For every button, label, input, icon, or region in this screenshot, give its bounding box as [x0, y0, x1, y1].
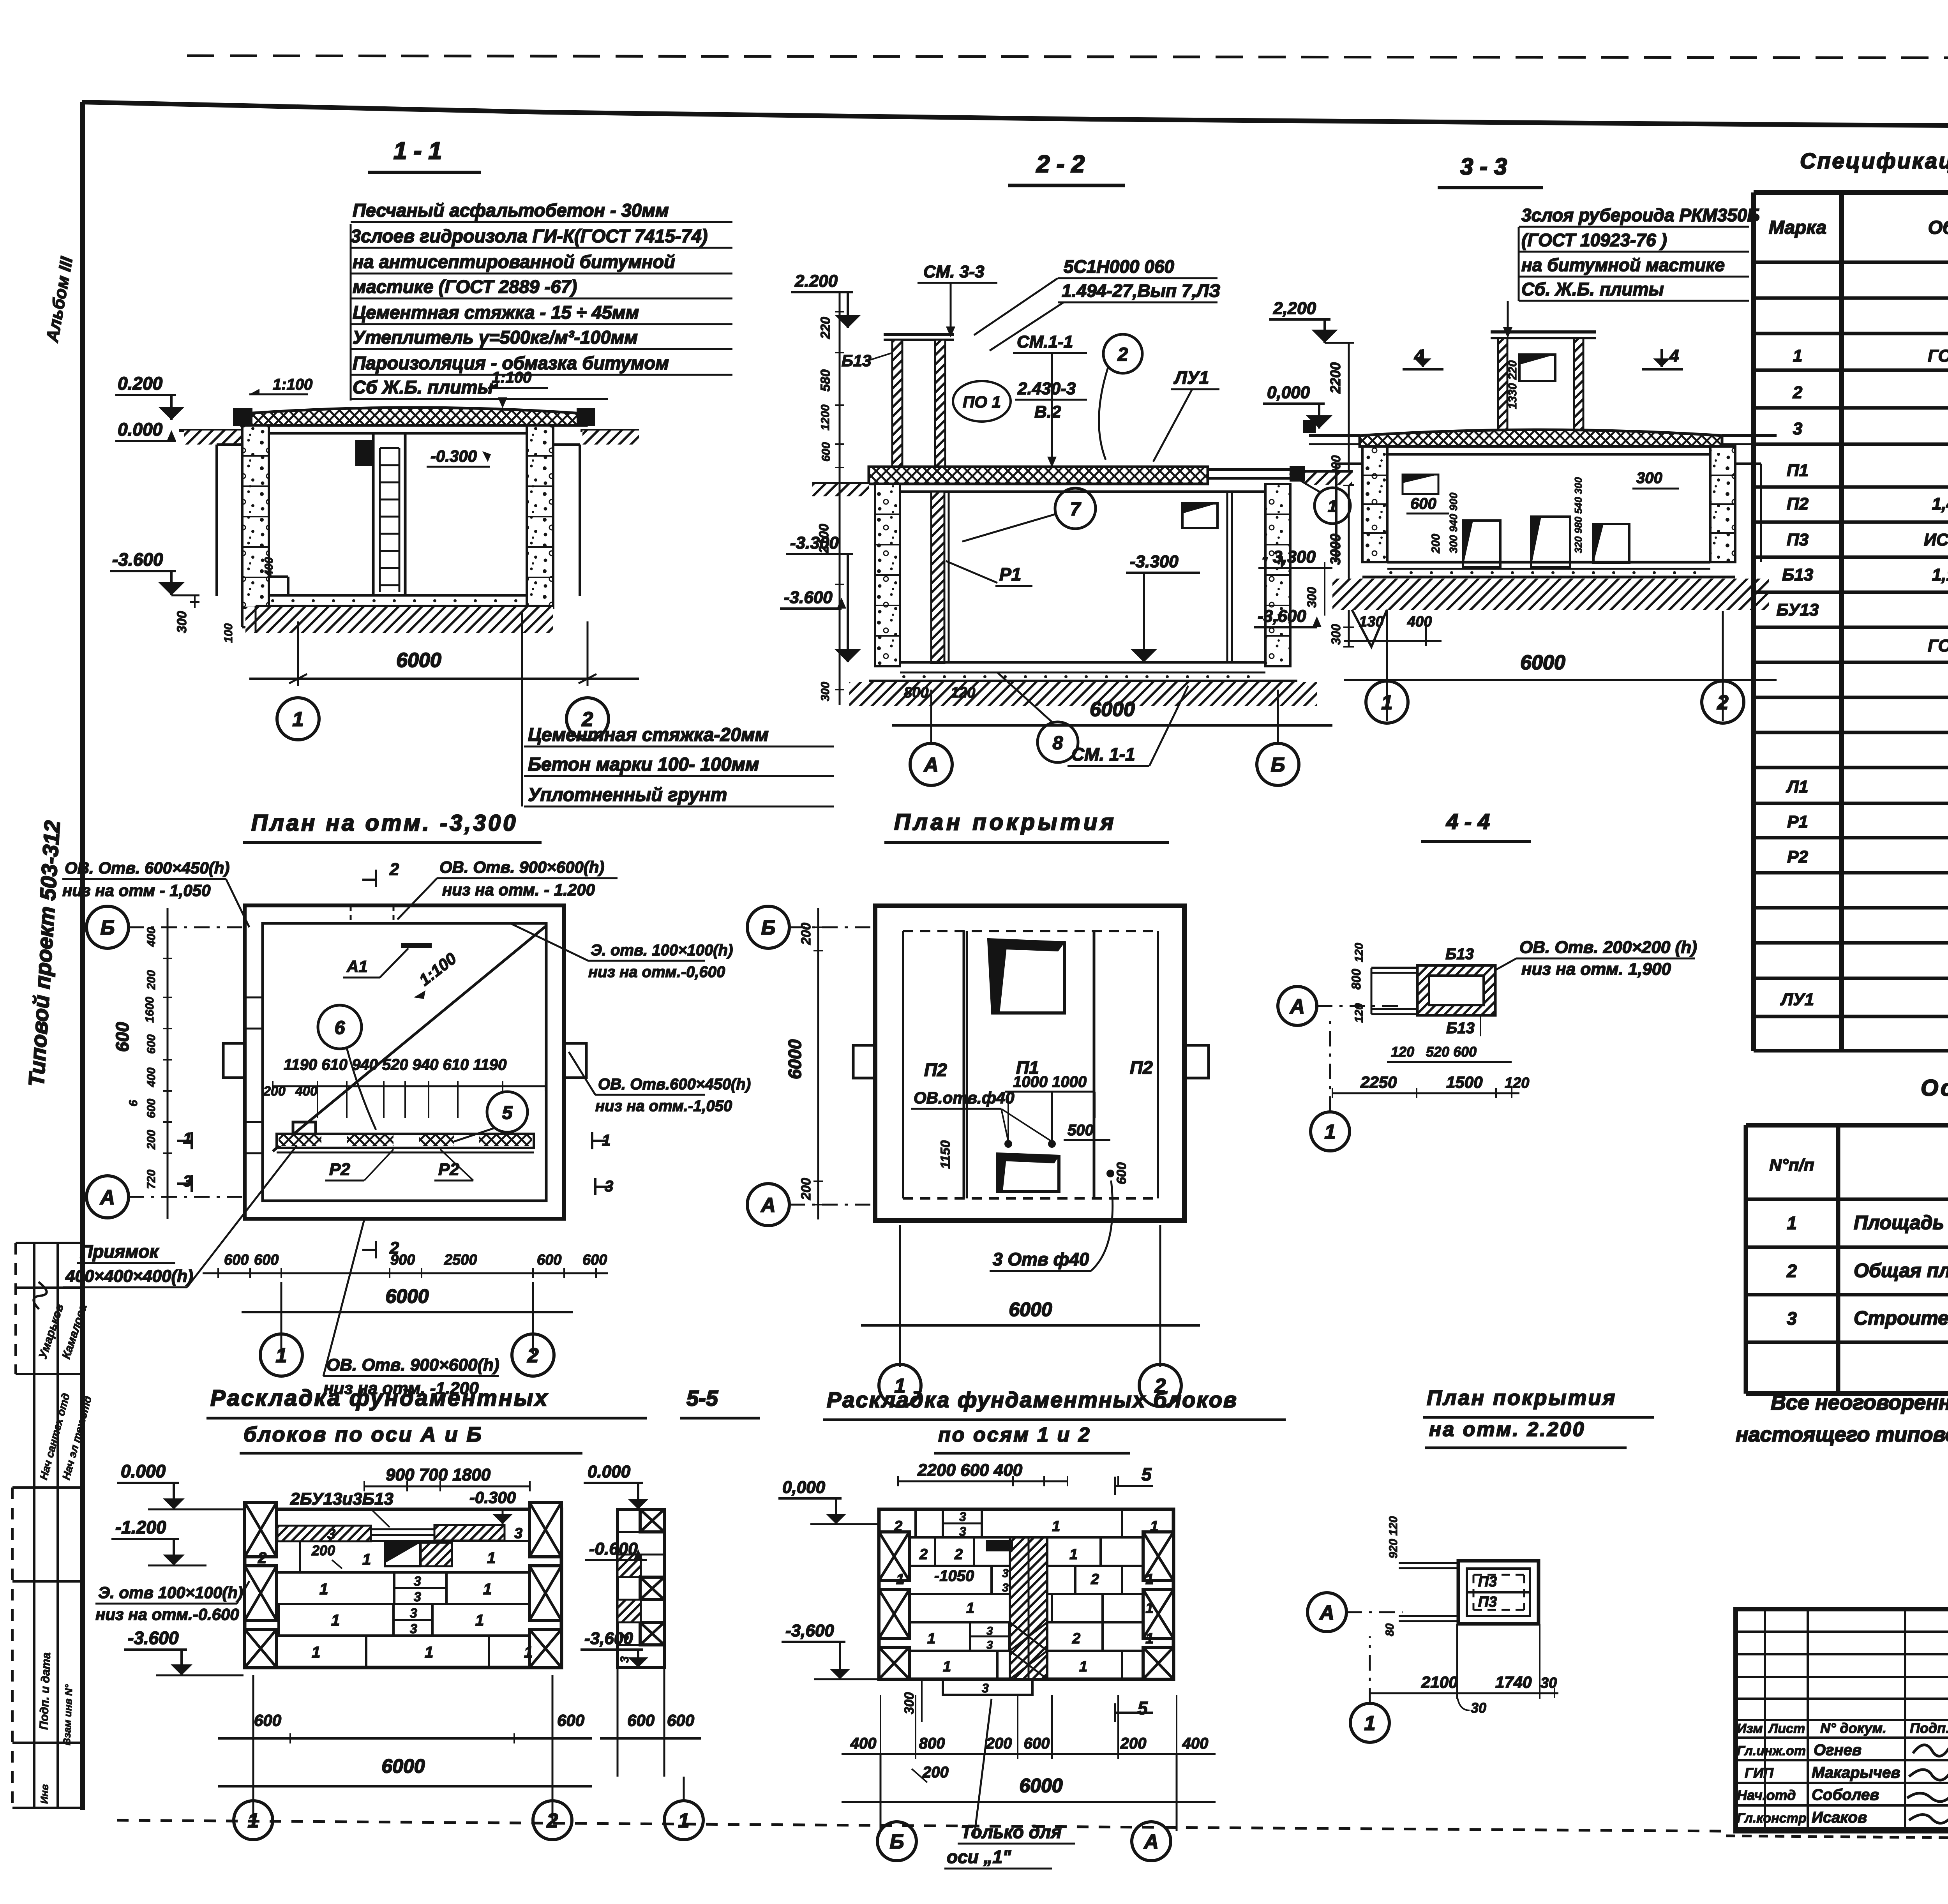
svg-text:600: 600 [1114, 1162, 1129, 1184]
svg-text:План покрытия: План покрытия [894, 810, 1117, 835]
svg-text:3: 3 [327, 1526, 335, 1542]
svg-text:6000: 6000 [1009, 1299, 1052, 1320]
raskladka 12 X marks in shaft [1010, 1622, 1047, 1651]
1-1 ground hatch below floor [245, 607, 553, 633]
svg-text:500: 500 [1068, 1122, 1094, 1139]
4-4 duct box [1417, 965, 1495, 1015]
4-4 axis 1 [1311, 1112, 1350, 1151]
leader from note to roof [502, 401, 504, 405]
svg-text:920 120: 920 120 [1387, 1516, 1400, 1558]
svg-text:200: 200 [145, 970, 158, 990]
svg-text:-3.600: -3.600 [784, 588, 833, 607]
plan 2.200 left channel lines [1399, 1562, 1458, 1564]
svg-text:520 600: 520 600 [1426, 1044, 1477, 1060]
plan -3.300 callout 5 [487, 1092, 528, 1132]
svg-text:Обозначение: Обозначение [1928, 217, 1948, 238]
svg-text:0.200: 0.200 [118, 373, 163, 394]
svg-text:3: 3 [414, 1574, 421, 1589]
svg-text:1330 220: 1330 220 [1506, 360, 1519, 409]
svg-text:Цементная стяжка-20мм: Цементная стяжка-20мм [528, 725, 769, 745]
svg-text:5: 5 [502, 1103, 513, 1123]
svg-text:Бетон марки 100- 100мм: Бетон марки 100- 100мм [528, 754, 759, 775]
svg-text:1: 1 [1325, 1121, 1336, 1143]
svg-text:130: 130 [1359, 614, 1383, 630]
svg-text:Огнев: Огнев [1814, 1742, 1862, 1759]
svg-text:2: 2 [1090, 1571, 1099, 1588]
svg-text:-3,600: -3,600 [785, 1621, 834, 1640]
svg-text:оси „1": оси „1" [947, 1847, 1011, 1867]
svg-text:2500: 2500 [444, 1252, 477, 1268]
svg-text:100: 100 [222, 623, 235, 643]
plan -3.300 frame band Р2 [277, 1134, 534, 1148]
svg-text:6000: 6000 [396, 649, 441, 672]
svg-text:низ на отм. 1,900: низ на отм. 1,900 [1521, 960, 1671, 979]
svg-text:2: 2 [1786, 1261, 1797, 1281]
svg-text:Сб Ж.Б. плиты: Сб Ж.Б. плиты [353, 377, 493, 397]
svg-text:Соболев: Соболев [1812, 1786, 1879, 1803]
1-1 ground lines left/right [179, 429, 249, 432]
axis circle 1 (5-5) [664, 1801, 703, 1840]
svg-text:Б13: Б13 [1445, 946, 1474, 963]
axis circle 1 (section 1-1) [277, 698, 319, 740]
svg-text:1: 1 [293, 708, 304, 731]
axis circle 1 (plan) [260, 1334, 302, 1376]
2-2 window opening [1182, 503, 1217, 528]
plan 2.200 axis А [1307, 1593, 1346, 1632]
1-1 pit step left [269, 575, 288, 578]
svg-text:на антисептированной битумной: на антисептированной битумной [353, 251, 675, 272]
svg-text:-0.300: -0.300 [469, 1488, 516, 1507]
svg-text:600: 600 [145, 1099, 158, 1118]
2-2 callout circle 1 right [1315, 488, 1350, 524]
raskladka 12 wall rows [879, 1509, 1173, 1679]
svg-text:1: 1 [183, 1130, 192, 1147]
3-3 chimney [1491, 330, 1596, 334]
raskladka 12 row1 blocks [934, 1537, 936, 1566]
svg-text:Макарычев: Макарычев [1812, 1764, 1900, 1781]
svg-text:600: 600 [145, 1034, 158, 1054]
svg-text:2100: 2100 [817, 524, 831, 554]
svg-text:1: 1 [487, 1549, 496, 1567]
1-1 interior room [269, 432, 527, 435]
axis circle А (raskladka 12) [1132, 1822, 1171, 1861]
svg-text:1190 610 940 520 940 610 1: 1190 610 940 520 940 610 1190 [284, 1056, 506, 1073]
3-3 chimney window [1519, 355, 1555, 381]
svg-text:1740: 1740 [1495, 1673, 1532, 1691]
axis circle 2 (section 1-1) [566, 698, 609, 740]
raskladka AB corner X blocks [245, 1502, 277, 1557]
svg-text:1500: 1500 [1446, 1073, 1482, 1091]
axis circle 1 (raskladka AB) [234, 1801, 273, 1840]
2-2 label ПО1 [953, 381, 1011, 422]
svg-text:-3,600: -3,600 [584, 1629, 633, 1648]
2-2 roof slab [869, 467, 1208, 484]
svg-text:блоков по оси А и Б: блоков по оси А и Б [243, 1423, 483, 1446]
svg-text:2БУ13и3Б13: 2БУ13и3Б13 [290, 1489, 393, 1509]
svg-text:0.000: 0.000 [121, 1461, 166, 1481]
svg-text:по осям 1 и 2: по осям 1 и 2 [938, 1424, 1091, 1446]
svg-text:400: 400 [145, 1068, 158, 1087]
svg-text:Р2: Р2 [329, 1160, 350, 1179]
raskladka 12 row5 blocks [996, 1651, 999, 1679]
svg-text:настоящего типового проекта: настоящего типового проекта. [1736, 1423, 1948, 1446]
axis circle 1 (pokr) [879, 1364, 921, 1406]
svg-text:Все неоговоренные узлы смо: Все неоговоренные узлы смотреть в альбом… [1771, 1391, 1948, 1414]
svg-text:Сб. Ж.Б. плиты: Сб. Ж.Б. плиты [1521, 279, 1664, 299]
svg-text:800: 800 [904, 685, 928, 701]
svg-text:3: 3 [986, 1625, 993, 1638]
svg-text:120: 120 [1353, 1003, 1366, 1023]
svg-text:2,200: 2,200 [1273, 299, 1316, 318]
svg-text:А: А [760, 1194, 776, 1217]
svg-text:600: 600 [112, 1022, 132, 1052]
svg-text:5: 5 [1142, 1464, 1152, 1484]
svg-text:600: 600 [820, 442, 833, 462]
svg-text:Б: Б [1271, 754, 1285, 776]
3-3 left wing seal [1303, 420, 1316, 433]
plan -3.300 left dim chain [167, 908, 169, 1219]
svg-text:2: 2 [547, 1810, 558, 1832]
svg-text:200: 200 [263, 1084, 286, 1099]
svg-text:4 - 4: 4 - 4 [1446, 809, 1490, 834]
svg-text:А: А [1319, 1602, 1334, 1624]
svg-text:ГИП: ГИП [1745, 1765, 1774, 1781]
svg-text:1: 1 [1382, 692, 1393, 714]
plan -3.300 left duct protrusion [223, 1043, 245, 1078]
svg-text:1: 1 [362, 1551, 371, 1568]
3-3 left wall [1362, 446, 1387, 562]
2-2 ground hatch right of roof [1305, 471, 1352, 485]
svg-text:ЛУ1: ЛУ1 [1780, 990, 1814, 1009]
svg-text:6000: 6000 [385, 1285, 429, 1307]
2-2 interior left hatched partition [931, 492, 944, 663]
plan pokrytiya inner slab edges [902, 931, 904, 1198]
3-3 interior ceiling [1387, 453, 1710, 456]
svg-text:1000 1000: 1000 1000 [1013, 1073, 1087, 1091]
svg-text:400: 400 [1407, 614, 1432, 630]
svg-text:А1: А1 [346, 957, 368, 976]
svg-text:ОВ. Отв. 600×450(h): ОВ. Отв. 600×450(h) [65, 859, 229, 877]
svg-text:низ на отм.-1,050: низ на отм.-1,050 [595, 1098, 732, 1115]
svg-text:6: 6 [335, 1018, 345, 1038]
top scan noise line [187, 56, 1948, 58]
svg-text:Песчаный асфальтобетон - 30мм: Песчаный асфальтобетон - 30мм [353, 200, 669, 221]
svg-text:ПО 1: ПО 1 [963, 393, 1001, 411]
svg-text:30: 30 [1471, 1700, 1486, 1716]
svg-text:0,000: 0,000 [1267, 383, 1310, 402]
svg-text:3: 3 [1002, 1567, 1009, 1580]
svg-text:Спецификация изделий на одн: Спецификация изделий на одну камеру [1800, 148, 1948, 173]
3-3 ground hatch below [1332, 579, 1769, 610]
svg-text:300: 300 [1329, 624, 1343, 645]
raskladka 12 row4 blocks [969, 1622, 971, 1651]
title block bottom noise [1726, 1836, 1948, 1841]
svg-text:ИС-01-04 Вып.2: ИС-01-04 Вып.2 [1924, 530, 1948, 549]
svg-text:580: 580 [818, 369, 833, 392]
plan -3.300 bottom dim chain [203, 1272, 608, 1274]
svg-text:3слоя рубероида РКМ350Б: 3слоя рубероида РКМ350Б [1521, 205, 1760, 225]
svg-text:600: 600 [582, 1252, 607, 1268]
axis circle Б (2-2) [1257, 743, 1299, 785]
svg-text:1: 1 [483, 1581, 492, 1598]
svg-text:СМ.1-1: СМ.1-1 [1017, 332, 1073, 351]
svg-text:В.2: В.2 [1034, 402, 1061, 422]
title block left grid horizontals [1736, 1630, 1948, 1633]
svg-text:2: 2 [919, 1546, 928, 1563]
svg-text:200: 200 [799, 1178, 813, 1200]
svg-text:ГОСТ 13579-78: ГОСТ 13579-78 [1928, 346, 1948, 365]
svg-text:2.200: 2.200 [794, 272, 838, 291]
svg-text:1: 1 [966, 1600, 974, 1616]
plan pokrytiya axis А [747, 1184, 789, 1226]
svg-text:-3.600: -3.600 [112, 549, 163, 570]
svg-text:Гл.констр: Гл.констр [1737, 1811, 1807, 1826]
svg-text:ОВ.отв.ф40: ОВ.отв.ф40 [914, 1089, 1015, 1107]
svg-text:Строительный объем: Строительный объем [1854, 1307, 1948, 1329]
svg-text:Р1: Р1 [999, 564, 1021, 584]
raskladka AB row0 hatched lintel band [277, 1526, 371, 1541]
svg-text:Уплотненный грунт: Уплотненный грунт [528, 785, 727, 805]
svg-text:Инв: Инв [38, 1784, 51, 1804]
svg-text:ГОСТ 6665 - 74: ГОСТ 6665 - 74 [1928, 636, 1948, 655]
2-2 interior ceiling line [900, 491, 1265, 493]
svg-text:1: 1 [1052, 1518, 1060, 1535]
svg-text:120: 120 [951, 685, 975, 701]
plan -3.300 callout 6 [318, 1005, 362, 1049]
svg-text:3: 3 [959, 1510, 966, 1524]
svg-text:ЛУ1: ЛУ1 [1173, 367, 1209, 388]
svg-text:220: 220 [818, 317, 833, 339]
3-3 interior window rects [1463, 521, 1500, 567]
svg-text:900 700 1800: 900 700 1800 [386, 1465, 491, 1484]
axis circle 2 (pokr) [1139, 1364, 1181, 1406]
plan -3.300 dim 6000 [281, 1282, 282, 1354]
svg-text:600: 600 [537, 1252, 561, 1268]
svg-text:120: 120 [1353, 943, 1366, 962]
svg-text:П2: П2 [1130, 1057, 1153, 1078]
svg-text:(ГОСТ 10923-76 ): (ГОСТ 10923-76 ) [1521, 230, 1667, 250]
svg-text:2: 2 [1072, 1630, 1080, 1647]
svg-text:3: 3 [1793, 419, 1802, 438]
svg-text:1,139-1 Вып.1: 1,139-1 Вып.1 [1932, 565, 1948, 584]
svg-text:400: 400 [145, 927, 158, 947]
4-4 left channel lines [1371, 967, 1417, 969]
svg-text:4: 4 [1669, 346, 1679, 365]
3-3 right wall [1710, 446, 1735, 562]
svg-text:2: 2 [954, 1546, 963, 1563]
svg-text:Общая площадь: Общая площадь [1854, 1260, 1948, 1281]
svg-text:-3.300: -3.300 [1130, 552, 1179, 571]
svg-text:1: 1 [276, 1345, 287, 1367]
svg-text:А: А [1143, 1831, 1159, 1853]
svg-text:200: 200 [986, 1735, 1012, 1752]
svg-text:900: 900 [390, 1252, 415, 1268]
svg-text:1: 1 [425, 1644, 433, 1661]
svg-text:А: А [99, 1186, 115, 1209]
axis circle 2 (plan) [512, 1334, 554, 1376]
3-3 roof slab [1360, 430, 1722, 446]
svg-text:3 - 3: 3 - 3 [1460, 154, 1507, 180]
svg-text:1: 1 [1145, 1600, 1154, 1616]
svg-text:П3: П3 [1478, 1594, 1497, 1610]
svg-text:1: 1 [524, 1644, 533, 1661]
svg-text:3: 3 [1002, 1581, 1009, 1594]
svg-text:3: 3 [183, 1173, 192, 1190]
dim chain between 2-2 and 3-3 [1348, 343, 1350, 647]
svg-text:2: 2 [1117, 344, 1128, 365]
plan -3.300 wall opening dashes top [350, 905, 352, 923]
svg-text:Цементная стяжка - 15 ÷ 45: Цементная стяжка - 15 ÷ 45мм [353, 302, 639, 323]
svg-text:Э. отв 100×100(h): Э. отв 100×100(h) [98, 1583, 243, 1602]
svg-text:БУ13: БУ13 [1777, 600, 1819, 619]
svg-text:300 940 900: 300 940 900 [1447, 492, 1459, 553]
svg-text:Б13: Б13 [1446, 1020, 1475, 1037]
axis circle 2 (3-3) [1702, 681, 1744, 723]
svg-text:Нач.отд: Нач.отд [1737, 1787, 1796, 1803]
svg-text:Изм: Изм [1737, 1721, 1763, 1736]
svg-text:П3: П3 [1787, 530, 1809, 549]
plan -3.300 pit square [293, 1122, 316, 1145]
svg-text:600: 600 [1024, 1735, 1050, 1752]
axis circle Б (raskladka 12) [877, 1822, 916, 1861]
plan -3.300 outer walls [245, 905, 564, 1219]
2-2 callout circle 8 [1038, 722, 1078, 762]
raskladka AB wall rows [245, 1509, 561, 1668]
3-3 bottom dim 6000 [1386, 646, 1388, 721]
svg-text:120: 120 [1505, 1075, 1529, 1091]
svg-text:120: 120 [1391, 1044, 1414, 1060]
plan 2.200 axis 1 [1350, 1703, 1389, 1742]
svg-text:Б: Б [101, 917, 115, 939]
svg-text:низ на отм. - 1.200: низ на отм. - 1.200 [442, 881, 595, 899]
svg-text:400: 400 [295, 1084, 318, 1099]
svg-text:2: 2 [258, 1549, 266, 1567]
svg-text:600: 600 [224, 1252, 249, 1268]
svg-text:П3: П3 [1478, 1574, 1497, 1590]
svg-text:1: 1 [896, 1571, 904, 1588]
svg-text:6000: 6000 [381, 1755, 425, 1777]
svg-text:1: 1 [1079, 1659, 1087, 1675]
svg-text:-0.300: -0.300 [431, 447, 477, 465]
raskladka AB row2 blocks [393, 1572, 395, 1604]
svg-text:1 - 1: 1 - 1 [393, 138, 442, 164]
raskladka AB row4 blocks [365, 1636, 367, 1668]
svg-text:3: 3 [959, 1525, 966, 1539]
svg-text:План на отм. -3,300: План на отм. -3,300 [251, 810, 518, 836]
2-2 ground hatch below [849, 682, 1317, 706]
svg-text:Л1: Л1 [1786, 777, 1809, 796]
1-1 outer foundation edges [215, 445, 218, 596]
svg-text:3: 3 [982, 1681, 989, 1695]
3-3 outer foundation edges [1335, 464, 1337, 562]
svg-text:-3.300: -3.300 [790, 533, 839, 552]
plan pokrytiya axis Б [747, 906, 789, 948]
1-1 bottom dim 6000 [297, 621, 299, 686]
svg-text:СМ. 1-1: СМ. 1-1 [1071, 744, 1135, 764]
svg-text:ОВ. Отв.600×450(h): ОВ. Отв.600×450(h) [598, 1076, 751, 1093]
1-1 right wall [527, 425, 553, 608]
svg-text:N° докум.: N° докум. [1820, 1720, 1886, 1736]
svg-text:- 3,300: - 3,300 [1262, 547, 1316, 566]
svg-text:5С1Н000 060: 5С1Н000 060 [1064, 256, 1174, 277]
svg-text:Основные показатели: Основные показатели [1921, 1075, 1948, 1101]
svg-text:300: 300 [1305, 587, 1319, 608]
svg-text:Р2: Р2 [1787, 847, 1808, 866]
svg-text:Исаков: Исаков [1812, 1809, 1867, 1826]
plan -3.300 axis Б [86, 906, 129, 948]
svg-text:0.000: 0.000 [118, 419, 163, 439]
svg-text:1: 1 [1150, 1518, 1158, 1535]
plan 2.200 hatch box [1458, 1561, 1539, 1624]
svg-text:3слоев гидроизола ГИ-К(ГОСТ 7: 3слоев гидроизола ГИ-К(ГОСТ 7415-74) [351, 226, 708, 246]
2-2 callout circle 2 [1103, 334, 1142, 373]
svg-text:800: 800 [919, 1735, 945, 1752]
svg-text:Подп. и дата: Подп. и дата [37, 1652, 53, 1730]
title block signatures [1913, 1745, 1948, 1756]
plan pokrytiya bottom opening [997, 1154, 1059, 1191]
svg-text:5-5: 5-5 [686, 1386, 718, 1410]
frame left border [80, 102, 85, 1810]
raskladka 12 bottom protrusion [943, 1679, 1032, 1695]
svg-text:1: 1 [475, 1612, 484, 1629]
svg-text:1: 1 [927, 1630, 935, 1647]
2-2 right wall [1265, 484, 1290, 666]
title block outer [1736, 1609, 1948, 1831]
svg-text:400: 400 [1182, 1735, 1209, 1752]
axis circle 2 (raskladka AB) [533, 1801, 572, 1840]
svg-text:низ на отм - 1,050: низ на отм - 1,050 [62, 881, 210, 900]
plan pokrytiya slab dividers [963, 931, 965, 1198]
svg-text:1: 1 [1069, 1546, 1078, 1563]
svg-text:1.494-27,Вып 7,ЛЗ: 1.494-27,Вып 7,ЛЗ [1062, 281, 1220, 301]
svg-text:мастике (ГОСТ 2889 -67): мастике (ГОСТ 2889 -67) [353, 276, 577, 297]
svg-text:200: 200 [145, 1130, 158, 1150]
plan -3.300 axis А [86, 1176, 129, 1218]
svg-text:0,000: 0,000 [782, 1478, 826, 1497]
plan -3.300 right duct protrusion [564, 1043, 586, 1078]
svg-text:Гл.инж.от: Гл.инж.от [1737, 1743, 1806, 1758]
svg-text:Б13: Б13 [1782, 565, 1813, 584]
svg-text:3: 3 [986, 1639, 993, 1652]
svg-text:П2: П2 [924, 1060, 947, 1080]
svg-text:Марка: Марка [1769, 217, 1826, 238]
svg-text:План покрытия: План покрытия [1427, 1386, 1616, 1410]
svg-text:400×400×400(h): 400×400×400(h) [65, 1267, 193, 1286]
svg-text:3: 3 [410, 1622, 417, 1636]
svg-text:320 980 540 300: 320 980 540 300 [1572, 477, 1584, 553]
2-2 callout circle 7 [1055, 488, 1096, 529]
plan -3.300 opening marks left wall [245, 997, 263, 999]
svg-text:6000: 6000 [1090, 698, 1135, 721]
raskladka 12 dim 6000 [880, 1754, 882, 1831]
svg-text:3: 3 [1787, 1308, 1797, 1329]
raskladka AB bottom dims [252, 1675, 254, 1823]
svg-text:П2: П2 [1787, 494, 1809, 513]
svg-text:ОВ. Отв. 900×600(h): ОВ. Отв. 900×600(h) [326, 1355, 499, 1375]
svg-text:200: 200 [311, 1542, 335, 1558]
svg-text:600: 600 [254, 1711, 281, 1729]
svg-text:-0.600: -0.600 [589, 1539, 638, 1558]
svg-text:Лист: Лист [1768, 1721, 1805, 1736]
svg-text:300: 300 [1636, 469, 1662, 487]
5-5 bottom dims [617, 1668, 619, 1777]
svg-text:низ на отм.-0.600: низ на отм.-0.600 [95, 1605, 239, 1623]
svg-text:3 Отв ф40: 3 Отв ф40 [993, 1249, 1089, 1269]
raskladka 12 row0 blocks [914, 1509, 917, 1537]
svg-text:ОВ. Отв. 900×600(h): ОВ. Отв. 900×600(h) [439, 858, 604, 876]
svg-text:2250: 2250 [1360, 1073, 1397, 1091]
svg-text:6000: 6000 [1520, 651, 1565, 674]
